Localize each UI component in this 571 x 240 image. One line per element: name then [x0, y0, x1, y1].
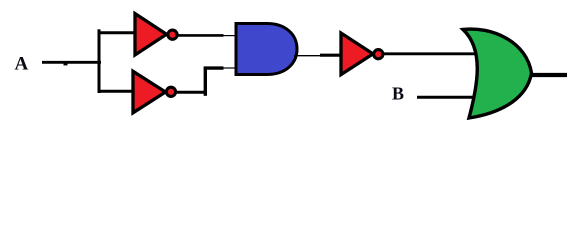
wire from A to branch node — [42, 61, 101, 64]
svg-text:A: A — [15, 54, 29, 75]
wire top branch to inverter 1 — [98, 31, 136, 34]
AND gate U1 — [236, 24, 297, 75]
wire OR output — [531, 73, 567, 77]
wire vertical branch line — [98, 29, 101, 93]
wire from middle inverter bubble to OR gate — [384, 52, 477, 55]
wire vertical step up — [204, 67, 207, 96]
inverter bubble, top — [168, 30, 177, 39]
wire from B to OR gate — [417, 96, 476, 99]
OR gate U2 — [463, 29, 532, 118]
wire from top inverter bubble to AND gate — [178, 34, 224, 37]
inverter (NOT gate) triangle, middle — [341, 33, 373, 75]
junction tick on A wire — [64, 63, 68, 66]
wire step top horizontal to AND — [204, 66, 224, 69]
wire from bottom inverter bubble — [177, 91, 207, 94]
inverter bubble, bottom — [166, 87, 175, 96]
wire thin stub into AND top input — [223, 35, 236, 37]
inverter (NOT gate) triangle, top — [135, 14, 167, 55]
svg-text:B: B — [392, 84, 404, 104]
wire thin stub into AND bottom input — [223, 67, 236, 69]
wire bottom branch to inverter 2 — [98, 90, 134, 93]
wire thin stub from AND output — [294, 55, 322, 57]
inverter bubble, middle — [374, 50, 383, 59]
wire AND output to inverter 3 — [320, 54, 342, 57]
inverter (NOT gate) triangle, bottom — [133, 71, 166, 113]
